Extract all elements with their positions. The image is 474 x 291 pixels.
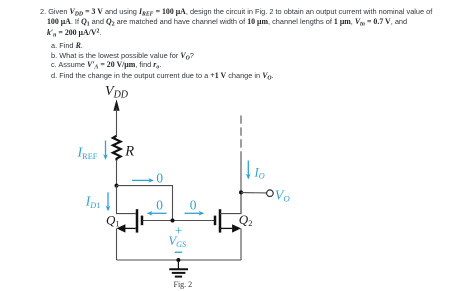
svg-text:0: 0 [190,198,197,213]
node A (drain Q1 junction) [115,184,119,188]
IO current arrow [246,161,251,180]
transistor Q1 source lead with arrow [117,224,136,260]
label 0 (top) [156,170,163,185]
problem text line 2 [47,17,407,28]
gate node junction [171,219,175,223]
transistor Q1 gate bar [141,216,144,226]
wire resistor to node A [116,160,118,185]
svg-text:Fig. 2: Fig. 2 [174,280,193,289]
VDD label [105,84,129,101]
IREF current arrow [103,141,108,161]
label 0 (left gate) [156,198,163,213]
zero gate current arrow (top) [132,178,154,183]
item c [51,60,161,71]
svg-text:Q2: Q2 [239,212,253,228]
transistor Q1 channel bar [136,209,139,232]
gate wire Q1 to Q2 [143,220,214,222]
VDD supply arrow [113,99,119,136]
wire node A to gate column [117,186,173,221]
wire to output terminal [241,192,266,194]
svg-text:R: R [124,143,134,159]
transistor Q2 drain lead [220,192,241,213]
transistor Q2 channel bar [219,209,222,232]
label VO [275,188,291,203]
label ID1 [85,194,100,210]
item b [51,51,194,62]
ground symbol [169,260,188,277]
output terminal circle [267,190,274,197]
svg-text:IREF: IREF [77,146,98,162]
problem text line 3 [47,28,101,39]
wire node A down to Q1 drain [117,186,136,214]
svg-text:0: 0 [156,170,163,185]
label IO [254,166,265,181]
label R [124,143,134,159]
output node junction [239,190,243,194]
bottom wire (source rail) [117,259,242,261]
svg-text:VDD: VDD [105,84,129,101]
svg-text:ID1: ID1 [85,194,100,210]
transistor Q2 source lead with arrow [221,224,241,260]
svg-text:IO: IO [254,166,265,181]
caption Fig. 2 [174,280,193,289]
VGS plus sign [175,223,182,238]
svg-text:Q1: Q1 [106,213,120,229]
ground node junction [176,258,180,262]
ID1 current arrow [106,192,111,211]
resistor R [113,136,121,161]
label IREF [77,146,98,162]
label Q1 [106,213,120,229]
svg-text:0: 0 [156,198,163,213]
label 0 (right gate) [190,198,197,213]
item d [51,71,274,82]
dashed wire to VDD (output branch) [240,116,242,159]
VGS minus sign [175,252,183,253]
label VGS [169,234,187,249]
label Q2 [239,212,253,228]
item a [51,41,83,50]
transistor Q2 gate bar [214,216,217,226]
problem text line 1 [40,7,432,18]
output branch solid wire [240,158,242,214]
svg-text:VO: VO [275,188,291,203]
zero current arrow into Q1 gate [147,211,167,216]
zero current arrow into Q2 gate [185,211,205,216]
